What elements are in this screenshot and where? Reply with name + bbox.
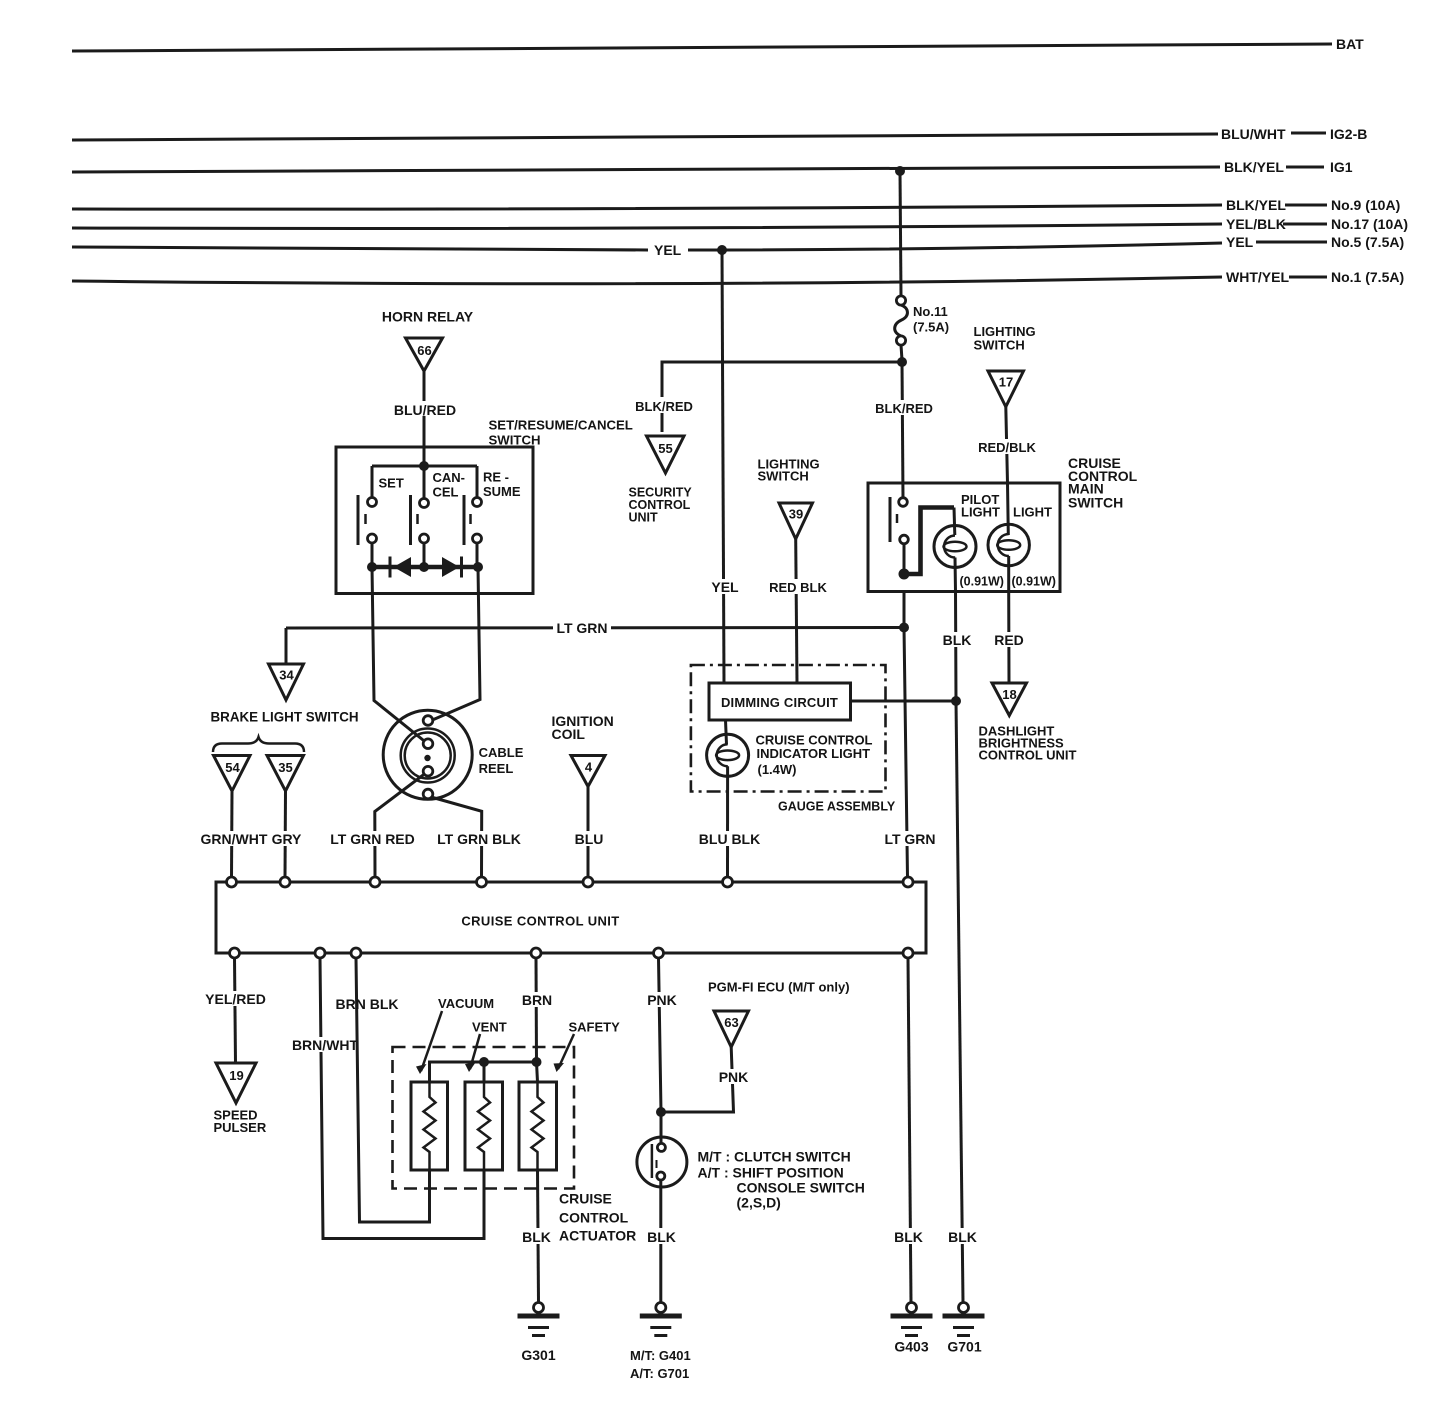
svg-text:CRUISE: CRUISE (559, 1191, 612, 1207)
svg-text:SET/RESUME/CANCEL: SET/RESUME/CANCEL (489, 418, 633, 433)
wire GRN/WHT to cruise unit (230, 791, 234, 877)
connector 54 (214, 756, 251, 792)
wire hook to pilot light (904, 508, 954, 575)
clutch switch (637, 1137, 687, 1187)
cable reel (383, 710, 524, 799)
wire BLU/RED horn relay to switch (423, 371, 426, 462)
svg-text:No.1 (7.5A): No.1 (7.5A) (1331, 269, 1404, 285)
wire No.5 fuse bus (YEL) (72, 234, 1404, 258)
svg-text:A/T: G701: A/T: G701 (630, 1366, 689, 1381)
svg-text:SUME: SUME (483, 484, 521, 499)
node junction BRN feed (532, 1057, 542, 1067)
label SAFETY with arrow (554, 1020, 621, 1073)
svg-text:PULSER: PULSER (214, 1120, 267, 1135)
svg-text:CONSOLE SWITCH: CONSOLE SWITCH (737, 1180, 865, 1196)
connector 17 LIGHTING SWITCH (974, 324, 1036, 407)
node junction on IG1 bus (895, 166, 905, 176)
svg-text:LT GRN: LT GRN (884, 831, 935, 847)
switch CANCEL (411, 466, 466, 567)
node junction BLK / dimming (951, 696, 961, 706)
lamp LIGHT (0.91W) (988, 505, 1056, 589)
lamp CRUISE CONTROL INDICATOR LIGHT (1.4W) (707, 720, 873, 777)
svg-text:YEL: YEL (654, 242, 682, 258)
label LT GRN (bus) (553, 620, 611, 636)
node junction main switch output (899, 569, 910, 580)
label BLK (G301) (521, 1228, 552, 1245)
lamp PILOT LIGHT (0.91W) (934, 492, 1004, 589)
wire No.9 fuse bus (BLK/YEL) (72, 197, 1400, 213)
switch SET (358, 466, 404, 567)
svg-text:RED: RED (994, 632, 1024, 648)
wire PNK cruise unit to clutch switch (659, 958, 662, 1143)
label M/T A/T clutch switch (698, 1149, 865, 1211)
svg-text:54: 54 (225, 760, 240, 775)
svg-text:PNK: PNK (647, 992, 677, 1008)
label YEL (on drop) (710, 579, 739, 595)
wire BLK clutch switch to ground (659, 1180, 662, 1302)
svg-text:YEL: YEL (711, 579, 739, 595)
svg-text:LIGHT: LIGHT (1013, 505, 1052, 520)
wire BLK to ground G701 (956, 701, 963, 1302)
node junction RESUME leg (473, 562, 483, 572)
ground G701 (943, 1303, 985, 1355)
svg-text:SET: SET (379, 476, 404, 491)
svg-text:CRUISE CONTROL UNIT: CRUISE CONTROL UNIT (461, 914, 619, 929)
node junction vent feed (479, 1057, 489, 1067)
svg-text:IG1: IG1 (1330, 159, 1353, 175)
ground G403 (891, 1303, 933, 1355)
wire BLK cruise unit to ground G403 (908, 958, 911, 1302)
wire BRN BLK to vacuum solenoid (356, 958, 430, 1222)
svg-text:39: 39 (789, 507, 803, 522)
wire fuse to junction (901, 345, 902, 360)
svg-text:YEL: YEL (1226, 234, 1254, 250)
fuse No.11 (7.5A) (895, 296, 949, 345)
svg-text:63: 63 (724, 1015, 738, 1030)
wire SET output down (372, 567, 426, 742)
svg-text:No.5 (7.5A): No.5 (7.5A) (1331, 234, 1404, 250)
svg-text:BLU: BLU (575, 831, 604, 847)
node junction LT GRN / main switch (899, 623, 909, 633)
svg-text:G701: G701 (947, 1339, 981, 1355)
svg-text:SWITCH: SWITCH (974, 338, 1025, 353)
svg-text:SAFETY: SAFETY (569, 1020, 621, 1035)
wire PNK from connector 63 (661, 1047, 734, 1112)
svg-text:CEL: CEL (433, 485, 459, 500)
wire YEL/RED to speed pulser (235, 958, 236, 1063)
svg-text:17: 17 (999, 375, 1013, 390)
svg-text:DIMMING CIRCUIT: DIMMING CIRCUIT (721, 695, 838, 710)
svg-text:34: 34 (279, 668, 294, 683)
svg-text:YEL/BLK: YEL/BLK (1226, 216, 1286, 232)
cruise control unit box (216, 882, 926, 953)
wire LT GRN bus (286, 626, 904, 630)
solenoid SAFETY (519, 1082, 557, 1170)
label RED (994, 632, 1024, 648)
svg-text:M/T: G401: M/T: G401 (630, 1348, 691, 1363)
wire safety solenoid to ground G301 (538, 1170, 539, 1302)
svg-text:35: 35 (278, 760, 292, 775)
wire RED BLK lighting switch to dimming circuit (796, 539, 797, 683)
wire LT GRN BLK cable reel to cruise unit (431, 797, 482, 877)
wire BLK/YEL drop from IG1 to fuse No.11 (900, 171, 901, 296)
svg-text:M/T : CLUTCH SWITCH: M/T : CLUTCH SWITCH (698, 1149, 851, 1165)
label LT GRN (drop) (884, 831, 936, 847)
svg-text:HORN RELAY: HORN RELAY (382, 309, 474, 325)
svg-text:BRN/WHT: BRN/WHT (292, 1037, 359, 1053)
wire BLU BLK indicator to cruise unit (726, 766, 729, 877)
connector 39 LIGHTING SWITCH (758, 457, 820, 540)
wire No.17 fuse bus (YEL/BLK) (72, 216, 1408, 232)
label BLK/RED (main switch branch) (875, 400, 933, 416)
svg-text:SWITCH: SWITCH (758, 469, 809, 484)
connector 63 (714, 1011, 749, 1047)
label CRUISE CONTROL ACTUATOR (559, 1191, 636, 1244)
svg-text:(0.91W): (0.91W) (1012, 575, 1056, 589)
svg-text:IG2-B: IG2-B (1330, 126, 1367, 142)
wire BRN to solenoid bus (535, 958, 539, 1062)
node junction SET leg (367, 562, 377, 572)
wire IG1 bus (BLK/YEL) (72, 159, 1353, 175)
label VACUUM with arrow (416, 996, 494, 1074)
wire BAT bus (72, 36, 1364, 52)
svg-text:BAT: BAT (1336, 36, 1364, 52)
wire main switch to LT GRN and cruise unit (904, 592, 908, 878)
svg-text:BLK: BLK (647, 1229, 676, 1245)
svg-text:No.11: No.11 (913, 304, 948, 319)
svg-text:GAUGE ASSEMBLY: GAUGE ASSEMBLY (778, 800, 896, 814)
wire No.1 fuse bus (WHT/YEL) (72, 269, 1404, 285)
svg-text:(0.91W): (0.91W) (960, 575, 1004, 589)
wire BLU to cruise unit (587, 787, 590, 878)
connector 4 IGNITION COIL (552, 713, 614, 787)
svg-text:CONTROL: CONTROL (559, 1210, 629, 1226)
wire branch to security control unit (662, 362, 902, 432)
diode D1 (points left) (390, 557, 411, 578)
svg-text:RE -: RE - (483, 470, 509, 485)
node junction CANCEL leg (419, 562, 429, 572)
wire IG2-B bus (BLU/WHT) (72, 126, 1367, 142)
svg-text:G301: G301 (521, 1347, 555, 1363)
svg-text:SWITCH: SWITCH (1068, 494, 1123, 510)
svg-text:A/T : SHIFT POSITION: A/T : SHIFT POSITION (698, 1165, 844, 1181)
node junction PNK (656, 1107, 666, 1117)
svg-text:UNIT: UNIT (629, 511, 659, 525)
cruise control actuator dashed box (393, 1047, 575, 1189)
svg-text:55: 55 (658, 441, 672, 456)
ground G301 (518, 1303, 560, 1364)
label BLU/RED (394, 401, 456, 418)
svg-text:LT GRN BLK: LT GRN BLK (437, 831, 521, 847)
svg-text:BLU/RED: BLU/RED (394, 402, 456, 418)
switch S1 in main switch (890, 497, 908, 569)
svg-text:18: 18 (1002, 687, 1016, 702)
wire LT GRN left end to connector 34 (285, 628, 288, 664)
wire internal top bus (372, 465, 477, 468)
brace over connectors 54 and 35 (213, 737, 304, 752)
svg-text:LT GRN RED: LT GRN RED (330, 831, 415, 847)
cruise control main switch box (868, 483, 1060, 592)
svg-text:BLU/WHT: BLU/WHT (1221, 126, 1286, 142)
label RED/BLK (977, 439, 1037, 455)
svg-text:GRY: GRY (272, 831, 302, 847)
svg-text:PGM-FI ECU (M/T only): PGM-FI ECU (M/T only) (708, 980, 850, 995)
svg-text:(1.4W): (1.4W) (758, 762, 797, 777)
svg-text:COIL: COIL (552, 726, 586, 742)
connector 19 SPEED PULSER (214, 1063, 267, 1135)
svg-text:LIGHT: LIGHT (961, 505, 1000, 520)
wire solenoid feed bus (430, 1062, 538, 1082)
label CRUISE CONTROL MAIN SWITCH (1068, 455, 1138, 510)
svg-text:RED BLK: RED BLK (769, 580, 827, 595)
svg-text:GRN/WHT: GRN/WHT (201, 831, 268, 847)
wire GRY to cruise unit (284, 791, 288, 877)
pin terminals cruise unit bottom (230, 948, 914, 958)
wire LT GRN RED cable reel to cruise unit (375, 774, 425, 877)
solenoid VACUUM (411, 1082, 448, 1170)
node junction BLU/RED entry (419, 461, 429, 471)
label VENT with arrow (465, 1020, 507, 1073)
wire diode bus (372, 565, 478, 570)
svg-text:(7.5A): (7.5A) (913, 320, 949, 335)
svg-text:BRAKE LIGHT SWITCH: BRAKE LIGHT SWITCH (211, 710, 359, 725)
connector 18 DASHLIGHT BRIGHTNESS CONTROL UNIT (979, 683, 1077, 763)
svg-text:BLK/RED: BLK/RED (875, 401, 933, 416)
svg-text:PNK: PNK (719, 1069, 749, 1085)
pin terminals cruise unit top (227, 877, 914, 887)
switch RESUME (464, 466, 521, 567)
svg-text:VACUUM: VACUUM (438, 996, 494, 1011)
svg-text:ACTUATOR: ACTUATOR (559, 1228, 636, 1244)
svg-text:G403: G403 (894, 1339, 928, 1355)
wire BLK/RED to cruise main switch (902, 362, 903, 498)
svg-text:RED/BLK: RED/BLK (978, 440, 1036, 455)
label BLK (G701 drop) (947, 1228, 978, 1245)
ground G401/G701 (630, 1303, 691, 1382)
svg-text:SWITCH: SWITCH (489, 433, 541, 448)
svg-text:4: 4 (585, 760, 593, 775)
wire dimming circuit to BLK junction (851, 700, 957, 703)
svg-text:VENT: VENT (472, 1020, 507, 1035)
wire RED/BLK to main switch light (1006, 407, 1009, 535)
label RED BLK (767, 579, 829, 595)
label SET/RESUME/CANCEL SWITCH (489, 418, 633, 448)
svg-text:BLK: BLK (943, 632, 972, 648)
svg-text:BRN BLK: BRN BLK (336, 996, 399, 1012)
connector 66 HORN RELAY (382, 309, 474, 372)
node junction below fuse (897, 357, 907, 367)
label BLK/RED (security branch) (635, 397, 693, 414)
diode D2 (points right) (442, 557, 462, 578)
svg-text:REEL: REEL (479, 761, 514, 776)
svg-text:No.17 (10A): No.17 (10A) (1331, 216, 1408, 232)
svg-text:No.9 (10A): No.9 (10A) (1331, 197, 1400, 213)
svg-text:INDICATOR LIGHT: INDICATOR LIGHT (757, 746, 871, 761)
connector 55 SECURITY CONTROL UNIT (629, 436, 693, 525)
svg-text:BLK: BLK (948, 1229, 977, 1245)
svg-text:CABLE: CABLE (479, 745, 524, 760)
wire YEL drop to dimming circuit (722, 250, 724, 683)
wire RESUME output down (434, 567, 481, 720)
set/resume/cancel switch box (336, 447, 533, 594)
svg-text:BLU BLK: BLU BLK (699, 831, 760, 847)
svg-text:LT GRN: LT GRN (556, 620, 607, 636)
connector 35 (267, 756, 304, 792)
svg-text:WHT/YEL: WHT/YEL (1226, 269, 1289, 285)
node junction on YEL bus (717, 245, 727, 255)
svg-text:BLK/YEL: BLK/YEL (1226, 197, 1286, 213)
label BLK (942, 632, 973, 648)
connector 34 (269, 664, 304, 700)
svg-text:(2,S,D): (2,S,D) (737, 1195, 781, 1211)
wire BLK pilot light down to dimming junction (955, 558, 956, 702)
svg-text:YEL/RED: YEL/RED (205, 991, 266, 1007)
svg-text:BRN: BRN (522, 992, 552, 1008)
svg-text:BLK: BLK (522, 1229, 551, 1245)
svg-text:19: 19 (229, 1068, 243, 1083)
wire RED light to connector 18 (1007, 556, 1010, 683)
wire BRN/WHT to vent solenoid (320, 958, 484, 1239)
svg-text:BLK: BLK (894, 1229, 923, 1245)
svg-text:BLK/RED: BLK/RED (635, 399, 693, 414)
svg-text:BLK/YEL: BLK/YEL (1224, 159, 1284, 175)
dimming circuit box (709, 683, 851, 720)
solenoid VENT (465, 1082, 503, 1170)
gauge assembly dashed box (691, 665, 886, 792)
svg-text:CAN-: CAN- (433, 470, 466, 485)
svg-text:CONTROL UNIT: CONTROL UNIT (979, 748, 1077, 763)
svg-text:66: 66 (417, 343, 431, 358)
